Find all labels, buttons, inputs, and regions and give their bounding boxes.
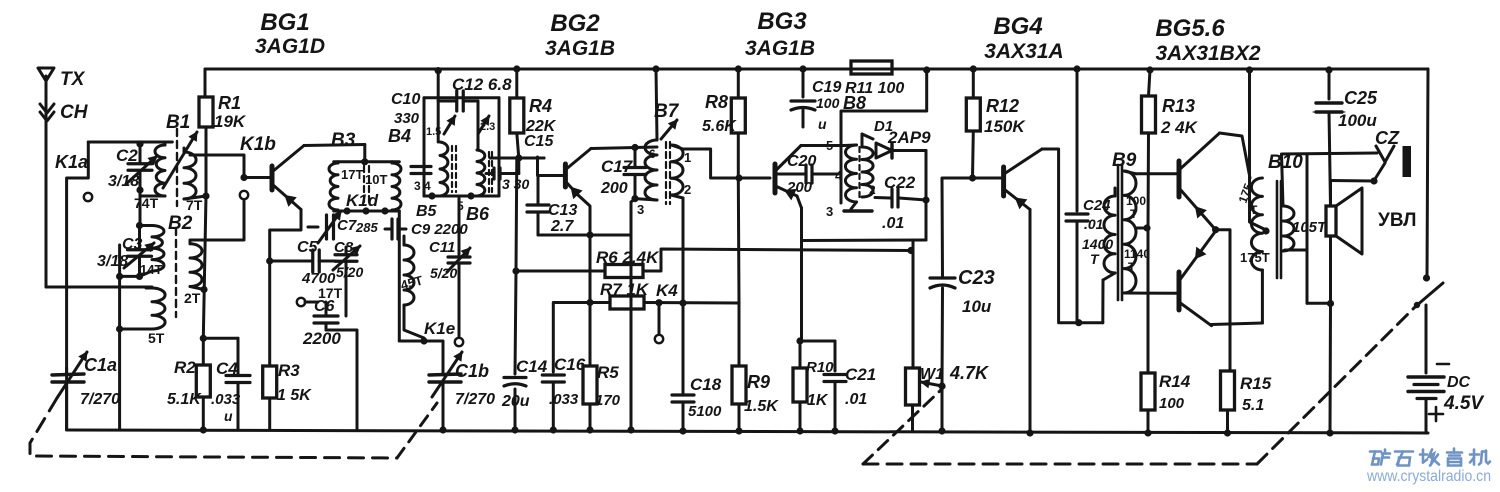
svg-text:4.7K: 4.7K <box>949 363 990 383</box>
wire K1b to BG1 base <box>244 176 271 179</box>
arrow B1 tuning <box>163 132 197 188</box>
svg-text:1K: 1K <box>807 392 829 409</box>
svg-text:R2: R2 <box>174 358 196 377</box>
wire BG3 collector <box>801 144 844 147</box>
svg-text:2.7: 2.7 <box>550 218 574 235</box>
node B9 in <box>1075 319 1082 326</box>
wire rail to C12 box <box>435 67 442 74</box>
capacitor C5 <box>311 250 314 272</box>
resistor R7 <box>610 296 644 309</box>
transformer B4 coil <box>440 142 448 196</box>
svg-text:C11: C11 <box>429 239 455 256</box>
core B1 <box>176 129 178 206</box>
wire rail to C25 <box>1325 66 1332 73</box>
label battery plus <box>1429 413 1443 416</box>
svg-text:3AX31A: 3AX31A <box>984 40 1063 63</box>
wire C23 up to base <box>942 178 1003 278</box>
svg-text:R4: R4 <box>529 96 552 116</box>
svg-text:R3: R3 <box>278 361 300 380</box>
wire right edge <box>1427 69 1428 278</box>
resistor R11 <box>851 61 892 74</box>
node BG2 emitter row <box>586 231 593 238</box>
wire rail to R4 <box>513 65 520 72</box>
resistor R3 <box>263 366 277 398</box>
wire R8 down <box>737 133 740 178</box>
wire R15 down <box>1226 410 1229 433</box>
node C22 out <box>922 196 929 203</box>
resistor R4 <box>510 98 524 133</box>
capacitor C13 <box>537 176 540 204</box>
wire R2 C4 bracket <box>203 337 238 340</box>
wire jack branch <box>1306 154 1309 303</box>
wire BG1 emitter path <box>270 210 301 367</box>
diode D1 2AP9 <box>861 134 864 147</box>
wire BG3 emitter join <box>797 196 802 208</box>
transformer B1 primary 74T <box>155 145 165 196</box>
wire rail to B7 <box>652 65 659 72</box>
node BG4 base <box>969 174 976 181</box>
wire B8 pin3 stub <box>851 202 857 209</box>
capacitor C11 trimmer <box>448 255 470 258</box>
svg-text:3AG1B: 3AG1B <box>545 37 615 60</box>
transformer B8 secondary <box>862 147 873 197</box>
capacitor C16 <box>542 373 564 376</box>
resistor R8 <box>731 98 745 133</box>
wire rail to R13 <box>1146 66 1153 73</box>
svg-text:B6: B6 <box>466 204 490 224</box>
wire IF box left <box>423 98 426 196</box>
svg-text:K1e: K1e <box>424 319 455 338</box>
svg-text:330: 330 <box>394 110 420 127</box>
node B2 bottom <box>200 286 207 293</box>
wire B6 circuit top <box>477 101 480 150</box>
node C2 bottom <box>136 186 143 193</box>
transformer B5 coil <box>404 245 414 305</box>
node C3 bottom <box>136 273 143 280</box>
antenna CH arrows <box>40 104 54 113</box>
svg-text:5: 5 <box>826 138 833 153</box>
arrow B6 slug <box>478 116 489 134</box>
core B9 <box>1117 165 1120 300</box>
svg-text:2AP9: 2AP9 <box>887 128 931 147</box>
wire battery to rail <box>1425 399 1428 434</box>
svg-text:3: 3 <box>637 202 644 217</box>
svg-text:14T: 14T <box>140 262 162 277</box>
core B2 <box>175 228 177 317</box>
svg-text:2: 2 <box>684 182 691 197</box>
arrow B7 slug <box>661 120 677 139</box>
wire B9 sec top to BG5 <box>1124 171 1136 174</box>
svg-text:3AG1B: 3AG1B <box>745 37 815 60</box>
wire B6 out <box>490 157 544 160</box>
wire R13 to tap <box>1147 133 1151 228</box>
wire BG2 collector <box>591 147 657 149</box>
svg-text:C13: C13 <box>548 202 577 219</box>
svg-text:175T: 175T <box>1240 250 1270 265</box>
capacitor C10 tank <box>411 165 431 168</box>
wire B3 right down <box>398 211 401 341</box>
svg-text:C15: C15 <box>524 133 554 150</box>
svg-text:170: 170 <box>595 392 621 409</box>
wire antenna lead <box>45 88 48 287</box>
wire B1 sec bottom <box>184 196 206 199</box>
wire switch to battery <box>1425 305 1428 373</box>
resistor R12 <box>966 98 980 131</box>
wire B1 tank top <box>88 141 172 144</box>
resistor R1 <box>199 97 213 127</box>
contact K1e open <box>455 338 463 346</box>
arrow B4 slug <box>444 116 455 134</box>
svg-text:BG3: BG3 <box>757 8 807 35</box>
core B10 <box>1276 181 1279 278</box>
transformer B9 primary <box>1104 196 1115 273</box>
wire K1a arm <box>67 142 89 368</box>
wire BG5 collector <box>1220 133 1250 178</box>
node switch <box>1423 274 1430 281</box>
wire IF box bottom <box>424 195 499 198</box>
svg-text:.033: .033 <box>211 391 241 408</box>
capacitor B6 cap 330 <box>492 168 495 179</box>
svg-text:2200: 2200 <box>302 329 341 348</box>
wire R12 down <box>971 131 975 178</box>
wire rail to B10 tap <box>1246 66 1253 73</box>
svg-text:2T: 2T <box>184 290 201 306</box>
capacitor C23 electrolytic <box>930 276 955 279</box>
transistor BG3 <box>773 164 778 193</box>
battery DC 4.5V <box>1408 375 1444 378</box>
wire left column <box>65 368 68 430</box>
svg-text:3AG1D: 3AG1D <box>255 35 325 58</box>
wire B7 sec to BG3 <box>671 145 770 178</box>
resistor R14 <box>1141 373 1155 410</box>
wire B10 sec top <box>1282 153 1378 206</box>
resistor R6 <box>605 265 643 278</box>
svg-text:K1b: K1b <box>240 134 276 155</box>
transformer B3 left 17T <box>329 163 338 210</box>
svg-text:C18: C18 <box>690 375 722 394</box>
svg-text:6: 6 <box>649 147 656 161</box>
wire rail to C19 <box>799 65 806 72</box>
contact K4 <box>658 303 661 334</box>
wire speaker bottom <box>1329 236 1332 303</box>
svg-text:T: T <box>1130 207 1138 221</box>
svg-text:5.1: 5.1 <box>1242 397 1264 414</box>
svg-text:K1d: K1d <box>346 191 379 210</box>
wire B8 box <box>841 69 927 203</box>
svg-text:u: u <box>818 116 827 132</box>
capacitor C3 trimmer <box>139 191 142 224</box>
svg-text:74T: 74T <box>134 195 159 211</box>
transistor BG1 <box>270 166 275 190</box>
wire B9 primary bottom <box>1103 273 1115 280</box>
svg-text:1: 1 <box>684 150 691 165</box>
linkage gang diagonal to C1b <box>397 403 437 458</box>
svg-text:R15: R15 <box>1240 374 1272 393</box>
node emitters <box>1212 226 1219 233</box>
svg-text:100: 100 <box>1126 194 1146 208</box>
wire C23 down <box>941 288 945 386</box>
svg-text:.01: .01 <box>1084 216 1104 232</box>
svg-text:K1a: K1a <box>55 152 88 172</box>
transformer B7 primary <box>645 140 657 200</box>
svg-text:1.5K: 1.5K <box>744 398 779 415</box>
svg-text:3: 3 <box>826 204 833 219</box>
svg-text:C12 6.8: C12 6.8 <box>452 75 512 94</box>
capacitor C18 <box>682 303 685 393</box>
svg-text:BG5.6: BG5.6 <box>1155 15 1225 42</box>
node emitter C5 junction <box>266 257 273 264</box>
node C17 bottom <box>631 195 638 202</box>
wire R4 to base node <box>517 133 519 158</box>
svg-text:B9: B9 <box>1112 150 1137 171</box>
antenna TX <box>38 68 54 81</box>
transformer B3 right 10T <box>392 163 401 210</box>
node B9 center tap <box>1143 224 1150 231</box>
svg-text:5/20: 5/20 <box>336 264 363 280</box>
wire C14 line <box>515 158 519 271</box>
svg-text:.01: .01 <box>882 215 904 232</box>
capacitor C17 <box>634 148 637 167</box>
svg-text:1400: 1400 <box>1082 236 1113 252</box>
wire rail to C24 <box>1073 65 1080 72</box>
svg-text:4.5V: 4.5V <box>1443 393 1484 414</box>
svg-text:R5: R5 <box>597 363 619 382</box>
wire rail to R8 <box>735 65 742 72</box>
wire BG6 collector row <box>1212 323 1263 325</box>
wire K1e to C1b <box>399 341 443 368</box>
svg-text:R7 1K: R7 1K <box>600 280 650 299</box>
svg-text:C8: C8 <box>334 239 354 256</box>
svg-text:10T: 10T <box>365 172 387 187</box>
capacitor C22 <box>890 189 893 207</box>
svg-text:C7: C7 <box>337 217 357 234</box>
transformer B7 secondary <box>671 145 683 195</box>
svg-text:.01: .01 <box>845 391 867 408</box>
svg-text:5.6K: 5.6K <box>702 118 737 135</box>
wire top supply rail <box>205 68 1428 71</box>
wire B6 out to BG2 base <box>538 157 565 176</box>
svg-text:C16: C16 <box>554 355 586 374</box>
wire K1a line down <box>118 245 121 430</box>
wire IF box top <box>424 96 499 99</box>
wire B10 primary bottom <box>1261 270 1264 323</box>
svg-text:C19: C19 <box>812 79 841 96</box>
switch K blade <box>1416 283 1443 306</box>
svg-text:C17: C17 <box>601 157 634 176</box>
svg-text:3/18: 3/18 <box>97 253 128 270</box>
capacitor C12 <box>455 91 458 111</box>
svg-text:285: 285 <box>355 220 378 235</box>
capacitor C24 <box>1066 212 1088 215</box>
wire B2 5T bottom <box>120 328 152 331</box>
resistor R2 <box>196 365 210 397</box>
wire detector out <box>925 151 928 241</box>
svg-text:5100: 5100 <box>688 403 722 420</box>
svg-text:K4: K4 <box>656 281 678 300</box>
wire BG4 emitter <box>1029 210 1032 434</box>
svg-text:19K: 19K <box>214 112 247 131</box>
capacitor C8 trimmer <box>335 253 357 256</box>
wire jack row <box>1307 302 1331 305</box>
wire B2 2T top <box>190 200 244 244</box>
wire emitter row <box>538 234 631 237</box>
wire C25 down <box>1329 112 1331 206</box>
wire C2 bottom to B1 <box>139 190 142 196</box>
svg-text:2.3: 2.3 <box>480 121 495 133</box>
node BG3 emitter bottom <box>796 337 803 344</box>
capacitor C21 <box>824 373 846 376</box>
svg-text:C1a: C1a <box>84 355 117 375</box>
wire B1 sec top to K1b <box>184 148 244 177</box>
capacitor C7 trimmer <box>325 215 328 239</box>
transformer B2 winding 14T <box>152 226 164 272</box>
core B8 <box>858 147 860 199</box>
transformer B10 secondary <box>1283 206 1294 251</box>
svg-text:R12: R12 <box>986 96 1019 116</box>
contact K1a <box>84 193 92 201</box>
capacitor C1b variable <box>429 374 461 375</box>
transistor BG5 <box>1177 161 1182 197</box>
svg-text:3AX31BX2: 3AX31BX2 <box>1155 42 1260 65</box>
wire R6 right up <box>643 249 911 271</box>
svg-text:TX: TX <box>60 69 86 90</box>
transformer B6 coil <box>477 150 485 196</box>
contact 17T tap <box>297 298 305 306</box>
core B4 <box>451 146 453 192</box>
svg-text:C23: C23 <box>958 267 995 289</box>
svg-text:1 5K: 1 5K <box>277 387 312 404</box>
transformer B10 primary <box>1251 178 1262 270</box>
svg-text:3/18: 3/18 <box>108 173 139 190</box>
node K4 junction <box>655 299 662 306</box>
svg-text:3 4: 3 4 <box>414 179 431 193</box>
svg-text:УВЛ: УВЛ <box>1378 210 1416 231</box>
capacitor C19 electrolytic <box>791 99 815 102</box>
wire R10 C21 bracket <box>800 340 835 343</box>
svg-text:R9: R9 <box>747 372 770 392</box>
svg-text:100: 100 <box>816 95 840 111</box>
svg-text:B3: B3 <box>331 130 356 151</box>
speaker <box>1326 206 1336 236</box>
wire R7 right <box>644 301 739 305</box>
wire B2 2T bottom <box>190 287 204 290</box>
capacitor C4 <box>226 374 250 377</box>
svg-text:C14: C14 <box>516 357 548 376</box>
arrow W1 wiper <box>921 382 942 386</box>
svg-text:5T: 5T <box>148 330 165 346</box>
wire B6 sec down <box>458 196 461 257</box>
wire bottom ground rail <box>68 430 1428 433</box>
transformer B2 winding 5T <box>152 288 165 329</box>
capacitor C9 <box>390 219 393 239</box>
svg-text:20u: 20u <box>501 393 530 410</box>
svg-text:7/270: 7/270 <box>80 391 120 408</box>
svg-text:B2: B2 <box>168 213 193 234</box>
node speaker ground <box>1327 300 1334 307</box>
wire BG2 emitter down <box>578 195 590 366</box>
wire det to W1 <box>912 240 915 368</box>
svg-text:W1: W1 <box>920 366 944 383</box>
wire rail to R1 <box>204 69 207 97</box>
transformer B2 winding 2T <box>190 244 202 287</box>
svg-text:B5: B5 <box>416 203 438 220</box>
potentiometer W1 <box>906 368 920 405</box>
wire B3 top <box>363 145 366 162</box>
wire speaker to rail <box>1329 304 1333 434</box>
svg-text:C22: C22 <box>884 173 916 192</box>
wire B5 bottom <box>404 305 424 338</box>
svg-text:C3: C3 <box>122 236 143 253</box>
wire BG1 collector <box>304 145 365 146</box>
svg-text:C21: C21 <box>845 365 876 384</box>
label battery minus <box>1437 363 1449 366</box>
svg-text:C20: C20 <box>787 153 816 170</box>
node B8 rail <box>923 66 930 73</box>
svg-text:B8: B8 <box>843 93 866 113</box>
contact K1b open <box>240 191 248 199</box>
wire R14 down <box>1147 410 1150 433</box>
svg-text:100: 100 <box>1159 395 1185 412</box>
node K1b <box>240 174 247 181</box>
svg-text:BG4: BG4 <box>993 13 1042 40</box>
svg-text:C25: C25 <box>1344 88 1378 108</box>
svg-text:C4: C4 <box>216 359 238 378</box>
resistor R5 <box>583 366 597 404</box>
wire B7 primary bottom <box>635 199 657 200</box>
wire B3 bottom <box>334 210 400 213</box>
svg-text:DC: DC <box>1447 374 1471 391</box>
svg-text:.033: .033 <box>549 391 579 408</box>
transistor BG4 <box>1001 167 1006 196</box>
node R7 R5 <box>586 299 593 306</box>
svg-text:T: T <box>1250 203 1258 217</box>
svg-text:C10: C10 <box>391 91 420 108</box>
svg-text:T: T <box>1128 260 1136 274</box>
svg-text:R13: R13 <box>1162 96 1195 116</box>
svg-text:4: 4 <box>835 168 843 183</box>
wire IF box right <box>498 98 501 196</box>
wire rail to R12 <box>970 65 977 72</box>
transformer B9 secondary <box>1124 171 1136 293</box>
wire C19 down stub <box>802 110 805 127</box>
capacitor C14 electrolytic <box>504 376 526 379</box>
svg-text:200: 200 <box>600 180 628 197</box>
node AVC junction <box>907 247 914 254</box>
linkage switch dashed <box>863 387 944 464</box>
wire wiper line <box>941 386 944 431</box>
svg-text:R1: R1 <box>218 93 241 113</box>
svg-text:17T: 17T <box>341 167 363 182</box>
capacitor C20 <box>804 165 807 183</box>
node C18 junction <box>679 299 686 306</box>
svg-text:CZ: CZ <box>1375 128 1400 148</box>
node R2 top <box>200 335 207 342</box>
svg-text:www.crystalradio.cn: www.crystalradio.cn <box>1366 468 1491 485</box>
wire BG4 collector <box>1042 149 1103 323</box>
svg-text:R14: R14 <box>1159 372 1191 391</box>
core B7 <box>665 142 667 204</box>
svg-text:150K: 150K <box>984 117 1026 136</box>
svg-text:u: u <box>224 408 233 424</box>
wire B4 circuit top <box>437 101 440 142</box>
core B6 <box>488 152 490 192</box>
svg-text:CH: CH <box>60 102 89 123</box>
svg-text:2 4K: 2 4K <box>1160 118 1199 137</box>
svg-text:1140: 1140 <box>1124 247 1150 261</box>
watermark text <box>1370 450 1381 453</box>
svg-text:C2: C2 <box>116 146 138 165</box>
capacitor C1a variable <box>52 374 84 375</box>
